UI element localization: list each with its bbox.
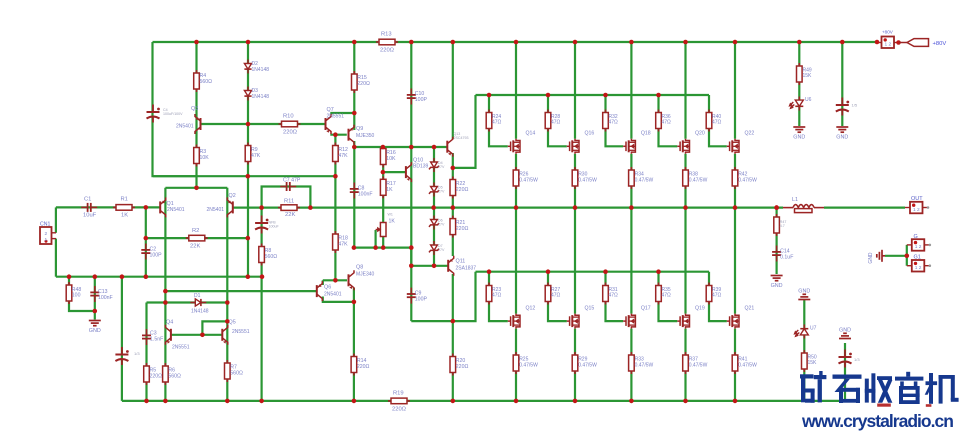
junction input ground rail (144, 274, 149, 279)
resistor R29 (572, 352, 578, 374)
svg-text:10uF: 10uF (83, 213, 97, 219)
resistor R10 (279, 121, 301, 127)
wire V- rail right (407, 400, 846, 402)
wire C2 column (145, 207, 147, 276)
ground GND U7 inverted (798, 294, 810, 299)
wire source lower Q12 (515, 329, 517, 401)
junction V+ rail (733, 40, 738, 45)
junction V+ rail (629, 40, 634, 45)
resistor R30 (572, 167, 578, 189)
svg-text:1K: 1K (386, 187, 393, 193)
transistor Q10 BD139 (406, 162, 412, 182)
svg-text:1/5: 1/5 (852, 103, 858, 108)
resistor R31 (603, 283, 609, 305)
svg-text:0.47/5W: 0.47/5W (738, 177, 757, 183)
svg-text:0.47/5W: 0.47/5W (519, 362, 538, 368)
wire source Q16 (574, 154, 576, 208)
transistor Q13 2SC4793 (447, 137, 453, 157)
resistor R49 (797, 63, 803, 85)
wire C7 loop (262, 187, 311, 208)
junction V- rail (514, 399, 519, 404)
svg-text:47K: 47K (251, 153, 261, 159)
wire mirror base (172, 334, 223, 336)
transistor Q7 2N5551 (326, 114, 332, 134)
svg-text:Q4: Q4 (166, 320, 173, 326)
resistor R38 (683, 167, 689, 189)
LED U7 (794, 325, 808, 339)
MOSFET Q14 (508, 139, 520, 154)
wire C16 column (844, 343, 846, 401)
wire drain lower Q14 (574, 208, 576, 314)
potentiometer W1 1K (376, 223, 386, 237)
capacitor C4 (147, 105, 160, 123)
wire Q13 emitter R22 R21 (452, 153, 454, 256)
resistor R26 (513, 167, 519, 189)
svg-text:1/3: 1/3 (134, 351, 140, 356)
svg-text:C7 47P: C7 47P (283, 178, 301, 184)
wire R12 R18 column (334, 135, 336, 281)
wire R47 C14 column (775, 208, 777, 274)
wire source Q14 (515, 154, 517, 208)
MOSFET Q20 (677, 139, 689, 154)
svg-text:2N5401: 2N5401 (324, 291, 342, 297)
svg-text:GND: GND (868, 252, 874, 264)
junction R12 bottom (333, 174, 338, 179)
transistor Q9 MJE350 (349, 125, 355, 145)
wire Q6 emitter to Q8 base (323, 279, 347, 281)
svg-text:100nF: 100nF (98, 295, 113, 301)
svg-text:0.47/5W: 0.47/5W (635, 177, 654, 183)
connector P2 +80V (876, 37, 899, 49)
svg-text:220Ω: 220Ω (456, 187, 469, 193)
junction V+ rail (246, 40, 251, 45)
junction P2 pin1 (875, 40, 880, 45)
resistor R7 (225, 360, 231, 382)
svg-text:47K: 47K (338, 241, 348, 247)
svg-text:BD139: BD139 (413, 164, 429, 170)
svg-text:U6: U6 (805, 97, 812, 103)
svg-text:Q3: Q3 (191, 106, 198, 112)
wire source Q20 (684, 154, 686, 208)
junction bottom gate bus (603, 269, 608, 274)
svg-text:560Ω: 560Ω (230, 370, 243, 376)
junction R9 bottom (246, 174, 251, 179)
wire drain Q22 (734, 42, 736, 139)
wire Q2 collector Q5 R7 column (226, 188, 228, 401)
wire output rail (232, 207, 783, 209)
resistor R25 (513, 352, 519, 374)
junction V- rail (352, 399, 357, 404)
junction output rail (451, 205, 456, 210)
svg-text:Q11: Q11 (456, 259, 466, 265)
junction V- rail (629, 399, 634, 404)
svg-text:L1: L1 (792, 197, 798, 203)
junction pot wiper (373, 245, 378, 250)
svg-text:1K: 1K (121, 213, 128, 219)
svg-text:MJE350: MJE350 (356, 133, 375, 139)
junction output rail (774, 205, 779, 210)
svg-text:220Ω: 220Ω (380, 48, 395, 54)
resistor R39 (706, 283, 712, 305)
wire R8 C6 column (261, 208, 263, 401)
wire G G1 tie (906, 245, 908, 266)
wire gate Q14 (548, 272, 567, 321)
svg-text:0.47/5W: 0.47/5W (635, 362, 654, 368)
capacitor C15 (836, 98, 849, 116)
svg-text:U7: U7 (810, 326, 817, 332)
junction input ground rail (260, 274, 265, 279)
svg-text:G1: G1 (914, 255, 921, 261)
wire U7 R50 column (803, 300, 805, 401)
MOSFET Q12 (508, 314, 520, 329)
junction output rail (683, 205, 688, 210)
svg-text:100uF: 100uF (269, 225, 280, 229)
junction V+ rail (683, 40, 688, 45)
svg-text:+80V: +80V (933, 41, 947, 47)
svg-text:1N4148: 1N4148 (252, 94, 270, 100)
svg-text:2N5551: 2N5551 (172, 345, 190, 351)
svg-text:4.7: 4.7 (780, 224, 785, 228)
junction V+ rail (352, 40, 357, 45)
junction Q13 emitter (451, 166, 456, 171)
wire R2 row (146, 237, 248, 239)
svg-text:CN1: CN1 (40, 222, 50, 228)
junction V+ rail (194, 40, 199, 45)
svg-text:27V: 27V (438, 248, 445, 252)
svg-text:47Ω: 47Ω (609, 120, 619, 126)
wire drain Q20 (684, 42, 686, 139)
svg-text:Q18: Q18 (641, 131, 651, 137)
junction output rail (733, 205, 738, 210)
junction Q3 base node (246, 122, 251, 127)
wire gate Q22 (709, 95, 727, 146)
resistor R21 (450, 216, 456, 238)
wire bias rail (153, 175, 335, 177)
junction mirror base (200, 333, 205, 338)
junction L1 left (774, 205, 779, 210)
svg-text:R19: R19 (393, 391, 404, 397)
wire Q10 base (383, 171, 405, 173)
svg-text:C1: C1 (84, 197, 91, 203)
svg-text:2N5551: 2N5551 (232, 329, 250, 335)
junction Q6 collector (352, 300, 357, 305)
svg-text:220Ω: 220Ω (357, 364, 370, 370)
svg-text:0.1uF: 0.1uF (780, 254, 793, 260)
junction V+ rail (514, 40, 519, 45)
MOSFET Q15 (567, 314, 579, 329)
junction V+ rail (573, 40, 578, 45)
svg-text:Q17: Q17 (641, 306, 651, 312)
wire C5 column (121, 277, 123, 401)
svg-text:2N5551: 2N5551 (327, 114, 345, 120)
svg-text:1K: 1K (389, 219, 396, 225)
svg-text:D1: D1 (194, 293, 201, 299)
resistor R3 (194, 145, 200, 167)
svg-text:Q8: Q8 (356, 265, 363, 271)
svg-text:R13: R13 (381, 32, 392, 38)
wire Q6 emitter leg (322, 280, 324, 285)
transistor Q4 2N5551 (165, 325, 171, 345)
junction input ground rail (67, 274, 72, 279)
wire R48 leg (69, 277, 95, 311)
svg-text:47Ω: 47Ω (662, 120, 672, 126)
capacitor C13 (90, 286, 99, 302)
svg-text:GND: GND (771, 283, 783, 289)
svg-text:47Ω: 47Ω (551, 120, 561, 126)
svg-text:0.47/5W: 0.47/5W (519, 177, 538, 183)
junction R2 left (144, 236, 149, 241)
wire bottom gate bus (476, 271, 710, 273)
svg-text:0.47/5W: 0.47/5W (578, 362, 597, 368)
junction output rail (573, 205, 578, 210)
svg-text:Q2: Q2 (229, 193, 236, 199)
svg-text:G: G (914, 234, 918, 240)
svg-text:47Ω: 47Ω (492, 293, 502, 299)
transistor Q3 2N5401 (195, 114, 201, 134)
svg-text:15K: 15K (808, 360, 818, 366)
svg-text:Q19: Q19 (695, 306, 705, 312)
junction mirror tie (225, 319, 230, 324)
capacitor C6 (255, 216, 268, 234)
svg-text:Q12: Q12 (526, 306, 536, 312)
svg-text:GND: GND (793, 135, 805, 141)
junction chassis gnd (905, 254, 910, 259)
resistor R27 (545, 283, 551, 305)
svg-text:Q10: Q10 (413, 158, 423, 164)
svg-text:Q16: Q16 (585, 131, 595, 137)
junction V- rail (573, 399, 578, 404)
wire gate Q20 (659, 95, 678, 146)
junction C8 bottom (352, 245, 357, 250)
junction top gate bus (656, 93, 661, 98)
svg-text:1N4148: 1N4148 (191, 309, 209, 315)
junction V+ rail (409, 40, 414, 45)
svg-text:1 2: 1 2 (913, 207, 920, 213)
wire diff pair tail (165, 187, 227, 189)
svg-text:Q22: Q22 (745, 131, 755, 137)
zener diode D6 zener (429, 216, 439, 230)
resistor R41 (732, 352, 738, 374)
resistor R6 (163, 363, 169, 385)
watermark red accents (877, 404, 891, 407)
svg-text:27V: 27V (438, 190, 445, 194)
svg-text:220Ω: 220Ω (357, 81, 370, 87)
wire CN1 pin2 (55, 207, 57, 232)
wire VAS drive rail (354, 146, 447, 148)
resistor R22 (450, 177, 456, 199)
junction output rail (629, 205, 634, 210)
svg-text:R11: R11 (284, 199, 294, 205)
resistor R42 (732, 167, 738, 189)
junction C13 bottom (93, 309, 98, 314)
junction pot bottom (381, 245, 386, 250)
wire source lower Q20 (734, 329, 736, 401)
junction Q11 base corner (409, 264, 414, 269)
svg-text:1N4148: 1N4148 (252, 67, 270, 73)
svg-text:Q20: Q20 (695, 131, 705, 137)
svg-text:47Ω: 47Ω (662, 293, 672, 299)
svg-text:100P: 100P (150, 252, 163, 258)
junction R2 right (246, 236, 251, 241)
svg-text:100uF/100V: 100uF/100V (163, 112, 183, 116)
wire drain lower Q18 (684, 208, 686, 314)
wire mirror tie (202, 321, 227, 334)
wire drain lower Q12 (515, 208, 517, 314)
resistor R20 (450, 354, 456, 376)
connector OUT (905, 202, 929, 214)
junction top gate bus (546, 93, 551, 98)
svg-text:GND: GND (836, 135, 848, 141)
transistor Q1 2N5401 (160, 197, 166, 217)
wire Q1 collector Q4 R6 column (164, 188, 166, 401)
diode D1 1N4148 (190, 299, 206, 306)
svg-text:Q9: Q9 (356, 126, 363, 132)
wire pot wiper leg (375, 230, 377, 248)
connector CN1 (40, 227, 56, 244)
wire CN1 pin1 (55, 239, 57, 277)
svg-text:10K: 10K (386, 156, 396, 162)
svg-text:MJE340: MJE340 (356, 271, 375, 277)
resistor R1 (113, 205, 135, 211)
resistor R48 (66, 282, 72, 304)
wire bottom gate feed (453, 272, 476, 321)
capacitor C3 (142, 329, 151, 345)
svg-text:2SC4793: 2SC4793 (454, 136, 469, 140)
junction bottom gate bus (487, 269, 492, 274)
capacitor C16 (839, 350, 852, 368)
junction output rail (514, 205, 519, 210)
zener diode D7 zener (429, 241, 439, 255)
wire C10 Q10 C9 column (410, 42, 412, 321)
resistor R50 (802, 350, 808, 372)
svg-text:100P: 100P (415, 97, 428, 103)
wire Q7 collector (330, 112, 354, 114)
wire drain lower Q20 (734, 208, 736, 314)
power port +80V (899, 42, 907, 44)
svg-text:1/3: 1/3 (854, 357, 860, 362)
svg-text:2N5401: 2N5401 (167, 207, 185, 213)
junction VAS feed (163, 289, 168, 294)
wire top gate bus (476, 94, 710, 96)
svg-text:100P: 100P (415, 296, 428, 302)
zener diode D5 zener (429, 183, 439, 197)
wire gate Q16 (548, 95, 567, 146)
junction top gate bus (603, 93, 608, 98)
svg-text:220Ω: 220Ω (456, 226, 469, 232)
resistor R36 (656, 110, 662, 132)
junction V- rail (683, 399, 688, 404)
ground GND input (89, 321, 101, 326)
svg-text:15K: 15K (803, 73, 813, 79)
svg-text:1: 1 (45, 237, 48, 243)
wire diode bias column (247, 42, 249, 277)
svg-text:220Ω: 220Ω (392, 407, 407, 413)
resistor R15 (352, 71, 358, 93)
capacitor C14 (772, 246, 781, 262)
svg-text:220Ω: 220Ω (283, 130, 298, 136)
wire C13 leg (94, 277, 96, 320)
wire gate Q14 (489, 95, 508, 146)
diode D2 1N4148 (244, 60, 251, 74)
capacitor C1 (81, 203, 97, 212)
svg-text:47Ω: 47Ω (609, 293, 619, 299)
wire source Q22 (734, 154, 736, 208)
wire input ground rail (56, 276, 263, 278)
MOSFET Q18 (623, 139, 635, 154)
wire source lower Q16 (630, 329, 632, 401)
junction zener bottom (432, 264, 437, 269)
wire drain Q14 (515, 42, 517, 139)
wire source lower Q14 (574, 329, 576, 401)
transistor Q8 MJE340 (349, 270, 355, 290)
MOSFET Q16 (567, 139, 579, 154)
svg-text:Q21: Q21 (745, 306, 755, 312)
ground GND U6 (793, 127, 805, 132)
wire Q13 collector (452, 42, 454, 139)
MOSFET Q22 (727, 139, 739, 154)
wire bias pot rail (354, 247, 411, 249)
svg-text:560Ω: 560Ω (265, 254, 278, 260)
wire input top (56, 206, 160, 208)
wire C9 to Q11 node (411, 320, 453, 322)
wire D1 row (147, 301, 228, 303)
wire output to OUT connector (824, 207, 905, 209)
junction V- rail (259, 399, 264, 404)
wire Q11 collector R20 (452, 274, 454, 401)
ground GND output (771, 276, 783, 281)
svg-text:220Ω: 220Ω (456, 364, 469, 370)
wire R49 LED column (798, 42, 800, 126)
transistor Q2 2N5401 (227, 197, 233, 217)
resistor R28 (545, 110, 551, 132)
svg-text:2N5401: 2N5401 (176, 124, 194, 130)
wire V+ rail left (153, 41, 379, 43)
junction top gate bus (487, 93, 492, 98)
resistor R34 (629, 167, 635, 189)
junction Q8 base (333, 278, 338, 283)
wire Q11 base feed (411, 248, 447, 266)
ground GND C15 (836, 127, 848, 132)
transistor Q6 2N5401 (317, 281, 323, 301)
wire VAS base feed (165, 290, 316, 292)
wire chassis ground (885, 255, 907, 257)
resistor R18 (333, 231, 339, 253)
svg-text:1 2: 1 2 (915, 265, 922, 271)
LED U6 (789, 97, 803, 111)
junction input ground rail (93, 274, 98, 279)
svg-text:R2: R2 (192, 228, 199, 234)
wire V- rail left (122, 400, 391, 402)
wire drain Q16 (574, 42, 576, 139)
wire Q7 emitter to Q9 base (330, 134, 347, 136)
wire C4 column (153, 42, 197, 176)
wire Q8 emitter R14 column (353, 288, 355, 401)
junction bottom gate bus (656, 269, 661, 274)
wire gate Q18 (659, 272, 678, 321)
ground GND C16 inverted (839, 333, 851, 338)
resistor R23 (486, 283, 492, 305)
junction output rail (259, 205, 264, 210)
transistor Q5 2N5551 (222, 325, 228, 345)
junction Q10 emitter (409, 245, 414, 250)
resistor R32 (603, 110, 609, 132)
svg-text:2SA1837: 2SA1837 (456, 265, 477, 271)
svg-text:27V: 27V (438, 223, 445, 227)
inductor L1 (783, 205, 824, 213)
resistor R17 (380, 176, 386, 198)
resistor R40 (706, 110, 712, 132)
svg-text:560Ω: 560Ω (168, 373, 181, 379)
